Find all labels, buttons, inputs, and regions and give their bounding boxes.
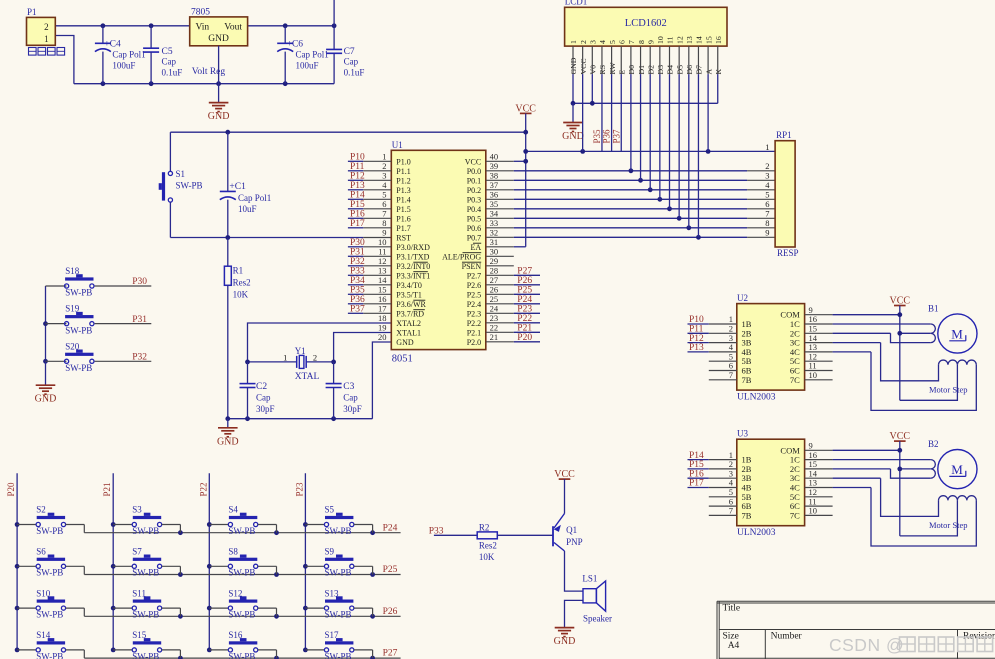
svg-text:P11: P11: [350, 162, 365, 172]
wire U3 4C to B2 winding right tap: [805, 488, 977, 547]
capacitor C6: [277, 26, 329, 84]
svg-text:D6: D6: [685, 65, 694, 75]
switch S19 SW-PB: [46, 304, 152, 336]
svg-text:26: 26: [490, 285, 499, 295]
transistor Q1 PNP: [553, 514, 583, 552]
switch S7 SW-PB: [113, 547, 180, 578]
switch S12 SW-PB: [209, 588, 276, 619]
svg-text:S5: S5: [325, 505, 335, 515]
svg-text:6: 6: [617, 40, 626, 44]
svg-text:7: 7: [765, 209, 769, 219]
wire speaker to ground: [565, 600, 584, 627]
svg-text:SW-PB: SW-PB: [228, 610, 255, 620]
svg-text:R2: R2: [479, 522, 490, 532]
U1 left pin names and numbers: [378, 152, 430, 347]
svg-text:P3.5/T1: P3.5/T1: [396, 290, 422, 299]
svg-text:17: 17: [378, 304, 387, 314]
svg-text:P3.2/INT0: P3.2/INT0: [396, 262, 430, 271]
svg-text:12: 12: [378, 256, 387, 266]
svg-text:5: 5: [382, 190, 386, 200]
capacitor C1: [220, 132, 271, 237]
svg-text:P1.4: P1.4: [396, 195, 410, 204]
svg-text:S2: S2: [36, 505, 46, 515]
ground GND (crystal): [217, 419, 239, 448]
motor B1 Motor Step: [928, 303, 977, 394]
capacitor C4: [95, 26, 146, 84]
svg-text:P2.6: P2.6: [467, 281, 481, 290]
svg-text:P20: P20: [517, 333, 532, 343]
svg-text:30pF: 30pF: [343, 404, 362, 414]
power VCC (B2): [890, 431, 911, 536]
connector P1: [27, 7, 56, 45]
svg-text:21: 21: [490, 332, 499, 342]
svg-text:P3.3/INT1: P3.3/INT1: [396, 271, 430, 280]
svg-text:P2.1: P2.1: [467, 328, 481, 337]
svg-text:RESP: RESP: [777, 248, 799, 258]
svg-text:Title: Title: [723, 604, 741, 614]
svg-text:P31: P31: [350, 248, 365, 258]
svg-text:S17: S17: [325, 630, 340, 640]
svg-text:P3.6/WR: P3.6/WR: [396, 300, 426, 309]
wire Q1 collector to speaker: [565, 551, 584, 591]
svg-text:40: 40: [490, 152, 499, 162]
svg-text:SW-PB: SW-PB: [132, 526, 159, 536]
svg-text:Cap: Cap: [256, 392, 271, 402]
power VCC (Q1): [554, 469, 575, 513]
net label P25: [383, 565, 398, 575]
resistor R1: [224, 238, 250, 419]
switch S20 SW-PB: [46, 341, 152, 373]
svg-text:15: 15: [704, 36, 713, 44]
regulator U 7805: [190, 8, 248, 77]
svg-text:37: 37: [490, 180, 499, 190]
svg-text:27: 27: [490, 275, 499, 285]
svg-text:P27: P27: [383, 649, 398, 659]
svg-text:1: 1: [283, 353, 287, 363]
svg-text:13: 13: [685, 36, 694, 44]
svg-text:35: 35: [490, 199, 499, 209]
U1 right P2 port stubs with net labels P27-P20: [486, 267, 540, 344]
svg-text:P33: P33: [429, 526, 444, 536]
svg-text:25: 25: [490, 294, 499, 304]
svg-text:36: 36: [490, 190, 499, 200]
svg-text:U1: U1: [392, 140, 403, 150]
svg-text:S4: S4: [228, 505, 238, 515]
svg-text:31: 31: [490, 237, 499, 247]
wire crystal ground rail: [225, 416, 372, 421]
wire U1 pin40 VCC: [486, 159, 528, 164]
svg-text:S8: S8: [228, 547, 238, 557]
svg-text:+C6: +C6: [287, 39, 304, 49]
svg-text:C2: C2: [256, 382, 267, 392]
svg-text:S3: S3: [132, 505, 142, 515]
svg-text:P0.3: P0.3: [467, 195, 481, 204]
svg-text:S7: S7: [132, 547, 142, 557]
svg-text:P0.1: P0.1: [467, 176, 481, 185]
svg-text:13: 13: [378, 266, 387, 276]
svg-text:Q1: Q1: [566, 525, 577, 535]
svg-text:P1: P1: [27, 7, 37, 17]
wire XTAL2 to Y1: [248, 323, 392, 362]
svg-text:P16: P16: [350, 210, 365, 220]
svg-text:RP1: RP1: [776, 130, 792, 140]
svg-text:S1: S1: [176, 169, 186, 179]
svg-text:XTAL1: XTAL1: [396, 328, 421, 337]
svg-text:SW-PB: SW-PB: [325, 568, 352, 578]
svg-text:S10: S10: [36, 588, 51, 598]
svg-text:30: 30: [490, 247, 499, 257]
capacitor C5: [143, 26, 182, 84]
svg-text:PSEN: PSEN: [462, 262, 482, 271]
svg-text:P26: P26: [383, 607, 398, 617]
switch S9 SW-PB: [305, 547, 372, 578]
svg-text:22: 22: [490, 323, 499, 333]
svg-text:LCD1602: LCD1602: [625, 18, 667, 29]
lcd pin stubs: [573, 46, 718, 74]
svg-text:LCD1: LCD1: [565, 0, 588, 7]
switch S13 SW-PB: [305, 588, 372, 619]
svg-text:P13: P13: [689, 343, 704, 353]
wire P1 pin1 to ground rail: [55, 36, 74, 84]
svg-text:B1: B1: [928, 303, 939, 313]
svg-text:10uF: 10uF: [238, 204, 257, 214]
svg-text:E: E: [617, 70, 626, 75]
switch S5 SW-PB: [305, 505, 372, 536]
svg-text:7C: 7C: [790, 510, 800, 520]
switch S18 SW-PB: [46, 266, 152, 298]
switch S6 SW-PB: [17, 547, 84, 578]
svg-text:SW-PB: SW-PB: [36, 610, 63, 620]
wires LCD RS RW E with net labels P35 P36 P37: [592, 74, 621, 151]
keypad column wires P20-P23: [6, 473, 308, 652]
wire U1 pin31 EA to VCC: [486, 246, 526, 248]
svg-text:Vin: Vin: [196, 23, 210, 33]
svg-text:SW-PB: SW-PB: [176, 181, 203, 191]
svg-text:XTAL2: XTAL2: [396, 319, 421, 328]
wire R2 to Q1 base: [497, 534, 553, 536]
svg-text:P14: P14: [350, 191, 365, 201]
svg-text:10: 10: [378, 237, 387, 247]
svg-text:7805: 7805: [191, 8, 210, 18]
svg-text:P27: P27: [517, 267, 532, 277]
svg-text:S18: S18: [65, 266, 80, 276]
svg-text:SW-PB: SW-PB: [36, 651, 63, 659]
svg-text:P3.7/RD: P3.7/RD: [396, 309, 424, 318]
watermark CSDN @ logo text: [829, 635, 993, 655]
U1 left pin stubs with net labels P10-P17 P30-P37: [348, 153, 391, 315]
svg-text:18: 18: [378, 313, 387, 323]
svg-text:29: 29: [490, 256, 499, 266]
svg-text:23: 23: [490, 313, 499, 323]
svg-text:2: 2: [44, 22, 49, 32]
svg-text:Volt Reg: Volt Reg: [192, 67, 226, 77]
net label P33 wire: [429, 526, 478, 536]
net label P31: [132, 315, 147, 325]
svg-text:1: 1: [765, 142, 769, 152]
svg-text:20: 20: [378, 332, 387, 342]
svg-text:P23: P23: [517, 305, 532, 315]
svg-text:6: 6: [382, 199, 386, 209]
svg-text:P1.1: P1.1: [396, 167, 410, 176]
svg-text:P21: P21: [102, 482, 112, 496]
svg-text:34: 34: [490, 209, 499, 219]
svg-text:7: 7: [382, 209, 386, 219]
svg-text:SW-PB: SW-PB: [65, 325, 92, 335]
wires P0 data bus rows to RP1: [486, 168, 775, 239]
svg-text:100uF: 100uF: [112, 61, 135, 71]
motor B2 Motor Step: [928, 439, 977, 530]
svg-text:16: 16: [378, 294, 387, 304]
svg-text:P26: P26: [517, 276, 532, 286]
svg-text:3: 3: [382, 171, 386, 181]
motor B2 winding bracket wires: [805, 460, 936, 479]
svg-text:P12: P12: [350, 172, 365, 182]
switch S17 SW-PB: [305, 630, 372, 659]
wire ground bottom rail: [74, 81, 334, 86]
wire U2 COM to VCC: [805, 312, 903, 317]
svg-text:38: 38: [490, 171, 499, 181]
svg-text:D5: D5: [675, 65, 684, 75]
svg-text:P22: P22: [517, 314, 532, 324]
wires LCD data D0-D7 down to bus rows: [631, 74, 699, 237]
svg-text:7C: 7C: [790, 375, 800, 385]
svg-text:7: 7: [729, 370, 733, 380]
svg-text:VCC: VCC: [465, 157, 481, 166]
svg-text:P23: P23: [294, 482, 304, 497]
svg-text:Cap Pol1: Cap Pol1: [296, 50, 329, 60]
svg-text:33: 33: [490, 218, 499, 228]
svg-text:3: 3: [589, 40, 598, 44]
svg-text:Motor Step: Motor Step: [929, 385, 968, 395]
svg-text:P34: P34: [350, 276, 365, 286]
svg-text:RS: RS: [598, 65, 607, 75]
svg-text:10: 10: [809, 506, 818, 516]
svg-text:P3.1/TXD: P3.1/TXD: [396, 252, 429, 261]
switch S4 SW-PB: [209, 505, 276, 536]
svg-text:P35: P35: [592, 129, 602, 144]
svg-text:4: 4: [598, 40, 607, 44]
svg-text:V0: V0: [589, 65, 598, 75]
svg-text:A4: A4: [728, 641, 740, 651]
driver U3 ULN2003 body: [729, 429, 818, 539]
svg-text:10: 10: [809, 370, 818, 380]
svg-text:B2: B2: [928, 439, 939, 449]
wire LCD backlight A pin15 down: [707, 74, 709, 151]
svg-text:7: 7: [627, 40, 636, 44]
svg-text:SW-PB: SW-PB: [325, 651, 352, 659]
svg-text:+C4: +C4: [104, 39, 121, 49]
svg-text:7B: 7B: [742, 510, 752, 520]
svg-text:C3: C3: [343, 382, 354, 392]
svg-text:P36: P36: [350, 295, 365, 305]
svg-text:1: 1: [44, 34, 49, 44]
svg-text:SW-PB: SW-PB: [228, 568, 255, 578]
svg-text:ALE/PROG: ALE/PROG: [442, 252, 481, 261]
net label P24: [383, 523, 398, 533]
ground GND (S18 rail): [35, 361, 57, 404]
wire VCC to B1 winding center tap: [900, 365, 958, 401]
label 电源接口 (power port): [29, 48, 65, 56]
wire keypad row bus to P25: [84, 572, 400, 577]
svg-text:10: 10: [656, 36, 665, 44]
wire XTAL1 to Y1: [334, 333, 392, 362]
svg-text:9: 9: [646, 40, 655, 44]
wire U2 4C to B1 winding right tap: [805, 352, 977, 411]
svg-text:12: 12: [675, 36, 684, 44]
svg-text:P0.7: P0.7: [467, 233, 481, 242]
wire VCC row to RP1 pin1: [523, 149, 775, 154]
svg-text:P1.5: P1.5: [396, 205, 410, 214]
wire U2 3C to B1 winding left tap: [805, 343, 939, 381]
wire keypad row bus to P24: [84, 530, 400, 535]
svg-text:P10: P10: [350, 153, 365, 163]
svg-text:3: 3: [765, 171, 769, 181]
svg-text:9: 9: [765, 228, 769, 238]
svg-text:P32: P32: [350, 257, 365, 267]
svg-text:15: 15: [378, 285, 387, 295]
svg-text:8: 8: [765, 218, 769, 228]
svg-text:M: M: [951, 326, 963, 341]
net label P27: [383, 649, 398, 659]
svg-text:P24: P24: [383, 523, 398, 533]
svg-text:P31: P31: [132, 315, 147, 325]
svg-text:P25: P25: [517, 286, 532, 296]
svg-text:Cap Pol1: Cap Pol1: [112, 50, 145, 60]
wire U1 GND pin down: [372, 342, 391, 419]
wire 7805 GND stem: [218, 46, 220, 103]
svg-text:P33: P33: [350, 267, 365, 277]
svg-text:P21: P21: [517, 324, 532, 334]
switch S1 SW-PB: [159, 132, 203, 237]
power VCC (U1): [515, 103, 536, 246]
svg-text:Number: Number: [771, 632, 803, 642]
svg-text:ULN2003: ULN2003: [737, 528, 776, 538]
svg-text:SW-PB: SW-PB: [228, 526, 255, 536]
ground GND (7805): [208, 102, 230, 122]
svg-text:8: 8: [382, 218, 386, 228]
svg-text:P25: P25: [383, 565, 398, 575]
svg-text:SW-PB: SW-PB: [36, 526, 63, 536]
svg-text:P30: P30: [132, 277, 147, 287]
wire LCD VCC pin2 down: [582, 74, 584, 151]
svg-text:P2.0: P2.0: [467, 338, 481, 347]
svg-text:M: M: [951, 462, 963, 477]
svg-text:P17: P17: [350, 219, 365, 229]
svg-text:EA: EA: [471, 243, 482, 252]
svg-text:1: 1: [569, 40, 578, 44]
svg-text:P2.5: P2.5: [467, 290, 481, 299]
svg-text:28: 28: [490, 266, 499, 276]
svg-text:GND: GND: [562, 131, 584, 142]
svg-text:SW-PB: SW-PB: [36, 568, 63, 578]
svg-text:SW-PB: SW-PB: [325, 610, 352, 620]
svg-text:Y1: Y1: [295, 346, 306, 356]
net label P32: [132, 353, 147, 363]
svg-text:Cap: Cap: [344, 57, 359, 67]
svg-text:P2.2: P2.2: [467, 319, 481, 328]
svg-text:2: 2: [579, 40, 588, 44]
svg-text:Cap: Cap: [162, 57, 177, 67]
svg-text:0.1uF: 0.1uF: [344, 68, 365, 78]
svg-text:9: 9: [382, 228, 386, 238]
svg-text:2: 2: [765, 161, 769, 171]
svg-text:D1: D1: [637, 65, 646, 75]
ground GND (speaker): [554, 627, 576, 647]
svg-text:R1: R1: [233, 265, 244, 275]
svg-text:Cap: Cap: [343, 392, 358, 402]
lcd pin name labels GND VCC V0 RS RW E D0-D7 A K: [569, 57, 723, 74]
svg-text:P1.6: P1.6: [396, 214, 410, 223]
svg-text:C7: C7: [344, 47, 355, 57]
svg-text:S14: S14: [36, 630, 51, 640]
svg-text:P20: P20: [6, 482, 16, 497]
svg-text:S9: S9: [325, 547, 335, 557]
svg-text:XTAL: XTAL: [295, 372, 320, 382]
svg-text:S12: S12: [228, 588, 242, 598]
svg-text:19: 19: [378, 323, 387, 333]
svg-text:RST: RST: [396, 233, 411, 242]
svg-text:D2: D2: [646, 65, 655, 75]
svg-text:U2: U2: [737, 293, 748, 303]
svg-text:24: 24: [490, 304, 499, 314]
svg-text:P2.7: P2.7: [467, 271, 481, 280]
switch S15 SW-PB: [113, 630, 180, 659]
svg-text:8: 8: [637, 40, 646, 44]
svg-text:CSDN @: CSDN @: [829, 635, 904, 655]
svg-text:100uF: 100uF: [296, 61, 319, 71]
svg-text:S19: S19: [65, 304, 80, 314]
svg-text:S11: S11: [132, 588, 146, 598]
svg-text:K: K: [714, 69, 723, 75]
svg-text:P36: P36: [602, 129, 612, 144]
svg-text:P0.6: P0.6: [467, 224, 481, 233]
svg-text:PNP: PNP: [566, 537, 583, 547]
svg-text:VCC: VCC: [579, 58, 588, 74]
net label P26: [383, 607, 398, 617]
svg-text:P3.0/RXD: P3.0/RXD: [396, 243, 430, 252]
svg-text:6: 6: [765, 199, 769, 209]
U3 input wires with net labels: [688, 451, 833, 516]
svg-text:39: 39: [490, 161, 499, 171]
motor B1 winding bracket wires: [805, 324, 936, 343]
svg-text:D4: D4: [666, 65, 675, 75]
svg-text:10K: 10K: [233, 289, 249, 299]
svg-text:RW: RW: [608, 62, 617, 75]
svg-text:SW-PB: SW-PB: [132, 610, 159, 620]
svg-text:P3.4/T0: P3.4/T0: [396, 281, 422, 290]
svg-text:2: 2: [313, 353, 317, 363]
U1 ALE and PSEN open stubs: [486, 256, 514, 266]
driver U2 ULN2003 body: [729, 293, 818, 403]
svg-text:5: 5: [608, 40, 617, 44]
svg-text:7: 7: [729, 506, 733, 516]
svg-text:D7: D7: [695, 65, 704, 75]
capacitor C2: [240, 362, 275, 419]
svg-text:P1.0: P1.0: [396, 157, 410, 166]
resistor pack RP1 RESP: [765, 130, 798, 258]
wire RST node rail: [170, 235, 391, 240]
svg-text:P2.4: P2.4: [467, 300, 481, 309]
title block frame: [717, 601, 995, 659]
U1 right pin names and numbers: [442, 152, 499, 347]
wire VCC to reset rail: [170, 130, 528, 135]
svg-text:A: A: [704, 69, 713, 75]
svg-text:0.1uF: 0.1uF: [162, 68, 183, 78]
svg-text:P1.3: P1.3: [396, 186, 410, 195]
svg-text:Speaker: Speaker: [583, 614, 612, 624]
svg-text:SW-PB: SW-PB: [65, 363, 92, 373]
svg-text:P1.2: P1.2: [396, 176, 410, 185]
